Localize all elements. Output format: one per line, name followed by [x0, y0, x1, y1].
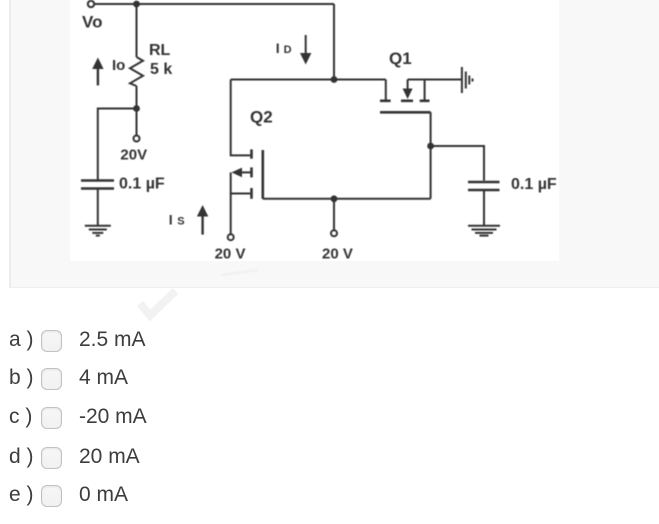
wire Q2 drain lead — [231, 80, 251, 156]
transistor Q1 bulk arrow — [407, 80, 409, 91]
transistor Q2 bulk arrow — [240, 171, 252, 173]
svg-text:IS: IS — [169, 211, 185, 227]
wire mid horizontal — [231, 79, 386, 81]
node mid junction — [331, 76, 338, 83]
transistor Q2 channel bars — [250, 149, 253, 198]
wire right cap to ground — [483, 190, 485, 225]
transistor Q1 gate bar — [380, 111, 431, 114]
svg-text:Io: Io — [112, 57, 125, 74]
arrow ID — [305, 35, 307, 54]
terminal 20V mid — [331, 230, 337, 236]
svg-text:ID: ID — [276, 40, 292, 56]
wire to 20V terminal — [136, 109, 138, 136]
capacitor C-right 0.1uF — [468, 181, 500, 184]
wire Q2 bulk tie — [230, 172, 232, 193]
wire junction to right cap — [431, 146, 484, 181]
ground right of Q1 (rotated) — [461, 67, 463, 93]
wire Q1 source lead — [424, 80, 426, 100]
svg-text:Q1: Q1 — [389, 49, 412, 68]
transistor Q1 channel bars — [380, 100, 430, 103]
node top-junction — [133, 1, 140, 8]
svg-text:0.1 µF: 0.1 µF — [511, 176, 557, 193]
wire resistor bottom lead — [136, 86, 138, 109]
terminal Vo — [88, 1, 94, 7]
svg-text:0.1 µF: 0.1 µF — [119, 176, 165, 193]
wire to 20V mid terminal — [333, 199, 335, 230]
terminal 20V left — [134, 136, 140, 142]
wire gate bus bottom — [263, 198, 431, 200]
node below RL — [133, 105, 140, 112]
arrow Is — [201, 216, 203, 235]
transistor Q2 gate bar — [261, 150, 264, 199]
svg-text:20 V: 20 V — [322, 245, 353, 262]
resistor RL — [130, 57, 143, 86]
wire resistor top lead — [136, 4, 138, 57]
terminal 20V Q2 source — [228, 234, 234, 240]
svg-text:Vo: Vo — [82, 13, 102, 32]
node bottom junction — [331, 195, 338, 202]
ground right — [468, 225, 500, 227]
wire Q1 gate down — [430, 112, 432, 199]
svg-text:20V: 20V — [120, 147, 147, 164]
wire Q1 drain lead — [385, 80, 387, 100]
wire top — [95, 3, 335, 5]
capacitor C-left 0.1uF — [81, 179, 114, 182]
wire Q1 top to ground — [408, 79, 462, 81]
wire top to mid junction — [333, 4, 335, 80]
node right junction — [427, 143, 434, 150]
svg-text:Q2: Q2 — [250, 107, 273, 126]
wire Q2 source lead — [231, 194, 251, 235]
ground left — [85, 225, 111, 227]
arrow Io — [97, 67, 99, 85]
wire to left cap — [98, 109, 137, 180]
svg-text:20 V: 20 V — [215, 245, 246, 262]
wire cap to ground — [97, 189, 99, 226]
svg-text:RL: RL — [149, 42, 171, 59]
svg-text:5 k: 5 k — [150, 61, 172, 78]
